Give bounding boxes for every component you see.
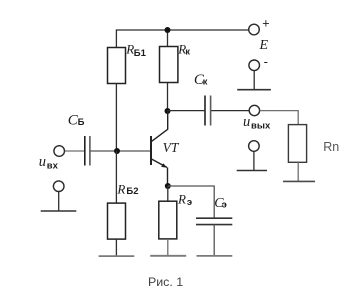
terminal E plus <box>249 24 260 35</box>
capacitor CЭ <box>196 218 232 224</box>
wire collector to CК <box>168 110 205 112</box>
ground output <box>237 170 267 172</box>
svg-text:вх: вх <box>47 161 59 172</box>
node base junction <box>114 148 120 154</box>
node emitter junction <box>165 183 171 189</box>
svg-text:Рис. 1: Рис. 1 <box>148 275 183 289</box>
wire CБ to base <box>91 150 151 152</box>
svg-text:+: + <box>262 16 269 30</box>
wire output ground lead <box>253 151 255 170</box>
resistor RЭ <box>159 201 177 239</box>
terminal input uвх <box>54 146 65 157</box>
terminal output ground <box>249 141 260 152</box>
ground minus terminal <box>237 89 271 91</box>
wire top supply rail <box>116 29 248 31</box>
wire CК to uвых <box>211 110 249 112</box>
svg-text:Б2: Б2 <box>126 186 138 197</box>
ground RБ2 <box>99 255 135 257</box>
wire uвых to Rn <box>260 111 299 125</box>
svg-text:u: u <box>39 154 46 170</box>
svg-text:VT: VT <box>163 140 180 155</box>
wire emitter to RЭ <box>167 186 169 201</box>
resistor RБ2 <box>108 203 126 239</box>
svg-text:u: u <box>243 114 250 130</box>
ground RЭ <box>150 255 186 257</box>
svg-text:Б: Б <box>78 117 85 128</box>
ground input <box>41 210 77 212</box>
node rail junction <box>165 27 171 33</box>
wire emitter to CЭ <box>168 186 214 218</box>
transistor VT <box>151 111 168 186</box>
wire input to CБ <box>65 150 84 152</box>
wire input ground lead <box>58 192 60 212</box>
resistor RБ1 <box>108 48 126 84</box>
terminal minus <box>249 60 260 71</box>
wire CЭ bottom lead <box>213 225 215 256</box>
svg-text:к: к <box>203 77 208 88</box>
svg-text:к: к <box>185 46 190 57</box>
wire RБ1 bottom lead <box>115 84 117 152</box>
svg-text:э: э <box>187 197 192 208</box>
svg-text:Б1: Б1 <box>134 48 147 59</box>
terminal input ground <box>53 181 64 192</box>
wire RК top lead <box>167 30 169 47</box>
svg-text:R: R <box>116 181 125 196</box>
capacitor CБ <box>85 136 90 166</box>
wire RЭ bottom lead <box>167 239 169 256</box>
ground CЭ <box>197 255 233 257</box>
svg-text:R: R <box>177 191 186 206</box>
capacitor CК <box>205 96 211 126</box>
svg-text:Rn: Rn <box>323 140 339 154</box>
wire RБ2 bottom lead <box>115 239 117 256</box>
svg-text:э: э <box>222 200 227 211</box>
terminal uвых <box>249 105 259 115</box>
svg-text:вых: вых <box>251 121 271 132</box>
resistor RК <box>160 47 178 83</box>
wire RБ2 top lead <box>115 151 117 203</box>
wire minus terminal lead <box>253 71 255 90</box>
svg-text:E: E <box>259 38 269 53</box>
wire RК bottom lead <box>167 83 169 112</box>
svg-text:-: - <box>264 54 268 69</box>
node collector junction <box>165 108 171 114</box>
wire Rn bottom lead <box>297 162 299 181</box>
resistor Rn <box>288 125 306 163</box>
ground Rn <box>283 180 315 182</box>
wire RБ1 top lead <box>115 29 117 47</box>
